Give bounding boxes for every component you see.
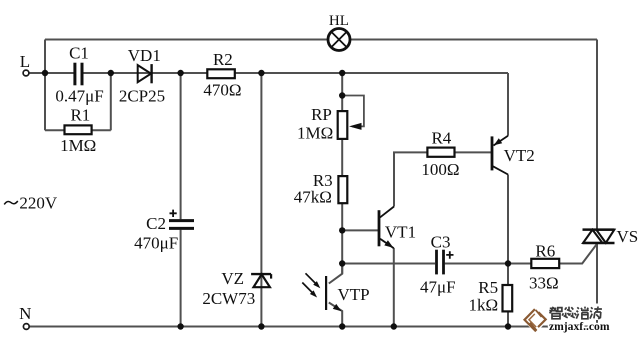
wire VTP collector lead <box>329 264 342 284</box>
capacitor C1 <box>75 63 82 86</box>
svg-text:33Ω: 33Ω <box>529 274 559 293</box>
wire top rail left vertical from L node to top rail <box>44 40 46 74</box>
svg-text:R4: R4 <box>431 129 451 148</box>
wire C2 branch upper <box>180 73 182 219</box>
transistor VT1 <box>379 207 394 249</box>
watermark text zhimiao xiaofang <box>549 307 602 319</box>
node bottom rail VTP emitter <box>339 323 345 329</box>
RP wiper arrowhead <box>349 123 362 130</box>
node C3 R5 R6 junction <box>505 260 511 266</box>
label plus C2 <box>170 210 177 217</box>
watermark halo backing <box>522 304 605 333</box>
svg-text:1MΩ: 1MΩ <box>60 136 96 155</box>
node bottom rail VZ <box>258 323 264 329</box>
svg-text:VS: VS <box>617 227 639 246</box>
svg-text:47μF: 47μF <box>420 278 456 297</box>
svg-text:R5: R5 <box>478 278 498 297</box>
wire VT2 collector vertical down to node <box>507 175 509 264</box>
label ~220V tilde <box>4 201 18 204</box>
svg-text:2CW73: 2CW73 <box>202 289 255 308</box>
svg-text:VTP: VTP <box>337 285 369 304</box>
svg-text:VT2: VT2 <box>504 146 535 165</box>
wire VT1 collector vertical to R4 row <box>394 152 427 206</box>
wire VT1 base horizontal <box>342 229 378 231</box>
wire main rail y=73 from C1 right plate through VD1 to R2 <box>83 72 207 74</box>
wire top rail left segment to lamp HL <box>45 39 329 41</box>
node VT1 base <box>339 227 345 233</box>
svg-text:1kΩ: 1kΩ <box>468 295 498 314</box>
wire RP wiper loop <box>342 96 364 127</box>
transistor VT2 PNP <box>492 136 508 175</box>
watermark logo <box>525 309 546 331</box>
svg-text:HL: HL <box>329 13 349 29</box>
svg-text:R2: R2 <box>213 50 233 69</box>
capacitor C3 polarized <box>437 250 444 275</box>
wire R4 to VT2 base <box>455 151 492 153</box>
svg-text:R6: R6 <box>535 241 555 260</box>
svg-text:2CP25: 2CP25 <box>119 86 165 105</box>
resistor R2 <box>207 69 235 78</box>
wire C3 row left segment <box>342 263 435 265</box>
node bottom rail R5 <box>505 323 511 329</box>
phototransistor VTP <box>326 276 341 311</box>
wire R1 loop right vertical <box>110 73 112 130</box>
wire C2 branch lower <box>180 230 182 327</box>
wire right vertical rail down to triac VS <box>596 40 598 230</box>
resistor R6 <box>531 259 559 268</box>
node L junction <box>42 70 48 76</box>
node RP wiper tap <box>339 92 345 98</box>
svg-text:C2: C2 <box>146 214 166 233</box>
wire bottom rail N <box>29 326 597 328</box>
node bottom rail C2 <box>177 323 183 329</box>
svg-text:RP: RP <box>311 105 332 124</box>
label plus C3 <box>446 251 453 259</box>
terminal L <box>23 70 29 76</box>
node C1 right <box>108 70 114 76</box>
diode VD1 <box>138 64 152 83</box>
triac VS <box>583 230 615 243</box>
VTP light arrow 2 <box>302 283 314 295</box>
resistor R3 <box>338 176 347 203</box>
VTP light arrow 1 <box>306 273 318 285</box>
svg-text:0.47μF: 0.47μF <box>55 86 103 105</box>
svg-text:470Ω: 470Ω <box>203 81 241 100</box>
resistor R1 <box>65 125 92 134</box>
wire VZ branch vertical <box>260 73 262 327</box>
svg-text:L: L <box>20 52 30 71</box>
wire VTP emitter lead <box>329 303 342 327</box>
svg-text:C1: C1 <box>69 44 89 63</box>
svg-text:470μF: 470μF <box>134 234 178 253</box>
node VTP collector tap <box>339 260 345 266</box>
wire R1 loop left vertical <box>44 73 46 130</box>
potentiometer RP <box>338 111 348 139</box>
svg-text:C3: C3 <box>431 233 451 252</box>
svg-text:VZ: VZ <box>221 269 244 288</box>
node bottom rail VT1 emitter <box>391 323 397 329</box>
node RP top <box>339 70 345 76</box>
capacitor C2 polarized <box>169 221 194 229</box>
svg-text:VD1: VD1 <box>128 46 161 65</box>
svg-text:N: N <box>19 304 31 323</box>
svg-text:R1: R1 <box>70 106 90 125</box>
terminal N <box>23 324 29 330</box>
node after R2 <box>258 70 264 76</box>
wire R6 row and triac gate lead <box>508 244 597 264</box>
wire VT1 emitter vertical to bottom rail <box>393 248 395 327</box>
wire top rail right segment from lamp to right edge <box>350 39 598 41</box>
resistor R4 <box>427 148 454 157</box>
wire VT2 emitter vertical to main rail <box>507 73 509 136</box>
resistor R5 <box>503 285 513 311</box>
lamp HL <box>328 29 350 51</box>
zener diode VZ <box>251 274 271 287</box>
svg-text:220V: 220V <box>19 194 58 213</box>
wire R5 vertical <box>507 264 509 327</box>
node after VD1 <box>177 70 183 76</box>
svg-text:100Ω: 100Ω <box>421 160 459 179</box>
wire main rail y=73 from R2 to VT2 emitter corner <box>235 72 508 74</box>
wire RP R3 chain vertical <box>341 73 343 274</box>
wire main rail y=73 from terminal L to C1 left plate <box>29 72 74 74</box>
svg-text:1MΩ: 1MΩ <box>297 124 333 143</box>
svg-text:zmjaxf..com: zmjaxf..com <box>549 320 610 333</box>
svg-text:47kΩ: 47kΩ <box>294 188 332 207</box>
wire R1 loop bottom horizontal <box>45 129 111 131</box>
svg-text:VT1: VT1 <box>385 222 416 241</box>
wire right vertical rail from triac VS to bottom rail <box>596 243 598 327</box>
wire C3 row right segment to node <box>445 263 508 265</box>
